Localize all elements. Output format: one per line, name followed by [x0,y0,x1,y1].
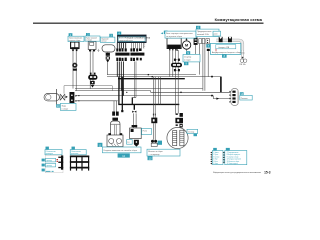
stator bar 2 [180,130,184,146]
legend A bottom marks [46,170,51,173]
arrows right of connector [75,95,77,97]
svg-text:соединений жгута: соединений жгута [119,39,133,42]
svg-text:проводов: проводов [46,153,53,155]
legend R2 tab [226,148,230,151]
battery connector stadium [231,88,239,105]
starter relay lead pair [169,50,171,76]
starter relay stubs [169,49,170,51]
arrow on battery feed [216,98,219,100]
tail lamp symbol [241,50,243,59]
pickup pair wires [152,77,154,118]
svg-text:13: 13 [127,142,129,144]
fuse lead [195,45,197,55]
magneto pair below connector [175,128,177,132]
callout box 5 starter relay [165,31,196,38]
svg-text:батарея 12В: батарея 12В [218,47,230,49]
tab below box 9 [184,62,188,65]
junction dots [78,39,213,102]
svg-text:M: M [185,43,188,47]
wire bus L3 y88.6 [75,88,203,90]
wire bus L8 y100.8 [76,100,118,102]
svg-text:7 Предохранитель: 7 Предохранитель [227,152,239,154]
bullet connector 2 [228,37,232,42]
wire to battery connector y98.6 [213,98,231,100]
svg-text:4 Жгут: 4 Жгут [213,159,218,161]
callout box 6 fuse [196,29,219,36]
svg-text:в сборе: в сборе [62,108,69,110]
thick drop x122.3 [121,77,123,110]
horn arrow down [106,60,109,63]
pickup top block [151,118,157,124]
legend B black table [71,156,89,171]
callout tab 6 [196,26,200,29]
horn body [102,45,115,52]
svg-text:провод: провод [46,165,51,167]
pickup coil terminal [151,140,154,143]
wire drop x213.3 [212,96,214,99]
svg-text:Коммутационная схема: Коммутационная схема [215,17,263,22]
ignition switch wires [72,51,74,89]
svg-text:3 Сигнал: 3 Сигнал [213,156,219,158]
main harness label box [118,35,147,43]
svg-text:реле: реле [214,34,218,36]
svg-text:со жгутом в сборе: со жгутом в сборе [166,36,182,38]
connector pin row 1 [116,48,141,51]
callout box 3 horn [100,37,115,42]
spark plug box [107,135,123,147]
wire thin loop top y85.7 [64,85,112,87]
coil stub to label [114,146,116,149]
ignition coil body [111,121,121,135]
dashed drop x144.8 [144,43,146,49]
arrow to connector [66,96,68,98]
callout tab 2 [86,33,90,36]
svg-text:Стартер: Стартер [184,57,191,59]
magneto pair wires [175,50,177,114]
horn lead [107,51,109,54]
svg-text:Обозначение: Обозначение [46,151,56,153]
wire bus L4 y90.6 [75,90,151,92]
tab below box 13 [194,134,198,137]
legend A title box [45,150,62,155]
connector bar row [115,53,129,56]
headlight bulb X [60,94,64,100]
callout box 14 [240,95,252,100]
svg-text:провод: провод [46,160,51,162]
callout tab 11 [98,143,103,147]
handlebar switch body [88,42,96,50]
callout box 1 ignition switch [68,36,84,41]
extra wire x199.7 [199,44,201,75]
callout tab 1 [69,33,73,36]
short pair x158 [157,77,159,105]
regulator pair wires [133,113,135,128]
callout tab 7 [206,44,210,47]
pickup tab [158,141,162,145]
svg-text:— генератор: — генератор [148,154,159,156]
svg-text:Катушка зажигания со свечой в: Катушка зажигания со свечой в сборе [104,149,137,152]
wire bus L1 y74.6 [107,74,196,76]
wire bus L1b y76.6 [107,76,221,78]
small cyan box left low [127,140,133,145]
svg-text:плавкий 15 А: плавкий 15 А [197,33,209,36]
svg-text:9 Стартер в сборе: 9 Стартер в сборе [227,156,239,158]
block below pair [90,81,94,84]
spare fuse pins [199,39,202,44]
regulator arrows [132,111,134,113]
tab below box 12 [148,156,153,160]
legend B tab [72,147,75,150]
arrow below pair [91,85,94,88]
legend A tab [46,147,49,150]
horn connector blocks [106,53,110,56]
capped stub x208 [207,49,210,51]
svg-text:Разъем: Разъем [241,98,248,100]
rectifier box [130,128,142,139]
starter motor M [182,41,190,49]
regulator connector mark [132,125,138,127]
wire bus L2 thick y78.7 [118,78,185,80]
midwire connector pair [88,75,97,80]
callout box 2 switch [85,36,100,41]
callout box 11 ignition coil [102,147,141,153]
battery inner box [216,45,236,49]
callout tab 4 harness [117,32,121,35]
bundle continues down [117,61,123,95]
svg-text:Предохранитель: Предохранитель [197,31,212,33]
red link [215,49,217,52]
svg-text:10 Катушка зажигания: 10 Катушка зажигания [227,159,242,161]
magneto caption [171,150,175,152]
legend R1 tab [213,148,217,151]
callout tab 3 [109,34,113,37]
callout tab 10 headlight [56,104,60,107]
svg-text:12В 3Вт: 12В 3Вт [239,64,246,66]
legend R1 arrows [210,152,212,165]
harness bundle thin verticals [131,43,143,49]
battery cable gray [216,40,242,50]
legend R2 box [225,151,247,165]
starter relay box [167,38,181,49]
thick ground bus y104.45 [118,103,179,105]
thick battery lead down x220.9 [220,77,222,93]
magneto circle [167,127,188,148]
small cyan box top right [213,31,221,36]
plug hatch [111,144,113,146]
headlight mast [56,89,58,105]
svg-text:в сборе: в сборе [184,60,191,62]
svg-text:Магнето в сборе: Магнето в сборе [148,151,163,153]
svg-text:Информация только для предвари: Информация только для предварительного о… [213,171,262,174]
svg-text:Обозначение: Обозначение [71,151,81,153]
legend A cyan cell 2 [46,163,56,167]
rectifier glyph [134,140,139,147]
thick drop from bundle x118.9 [118,77,120,105]
callout tab 5 [164,31,168,34]
inline connector pair goggles [171,63,182,67]
main fuse [194,38,198,45]
ignition coil connector [112,112,115,116]
legend R2 arrows [223,152,225,163]
tab below box 11 [118,153,130,157]
svg-text:Аккумуляторная батарея в сборе: Аккумуляторная батарея в сборе [212,51,241,54]
cyan box right of rectifier [142,128,152,134]
tiny marks right of switch2 [97,49,99,52]
wire loop left v x64 [63,86,65,94]
thick elbow x132.3 [131,97,133,104]
battery label box outer [210,43,240,54]
ignition coil feed wires [113,101,115,112]
harness bundle verticals [117,43,125,49]
tab below battery box [222,54,227,57]
legend B title box [70,150,86,155]
svg-text:8 Батарея аккумулят.: 8 Батарея аккумулят. [227,154,241,156]
callout box 9 starter motor [183,55,200,62]
wire bus L5 y95.6 [76,95,214,97]
legend A red mark [57,159,59,160]
callout box 13 magneto [187,129,198,133]
wire step x150.6 [150,91,152,93]
switch bottom stubs [72,49,74,51]
svg-text:разъемов: разъемов [71,153,78,155]
headlight body [44,94,59,101]
stator bar 1 [173,131,177,146]
svg-text:Реле стартера электрического: Реле стартера электрического [166,33,193,35]
svg-text:2 Пульт: 2 Пульт [213,154,218,156]
svg-text:в сборе: в сборе [86,40,92,42]
legend A cyan cell 1 [46,158,56,162]
callout box 12 magneto [147,149,180,156]
regulator drop thick [133,104,135,109]
callout tab 14 battery connector [240,92,244,95]
svg-text:сигнал: сигнал [101,41,106,43]
wire bus L4b y92.3 [151,91,231,93]
connector pin row 2 [116,58,142,61]
arrow down [135,148,138,151]
charge pair wires [133,61,135,97]
svg-text:1 Замок: 1 Замок [213,152,219,154]
ignition switch body [71,42,79,48]
handlebar switch wires [89,51,91,88]
headlight connector [70,92,75,103]
svg-text:Реле: Реле [143,131,147,133]
right pair wires [202,44,204,91]
callout box 10 headlight [60,103,76,110]
wire loop right v x112.3 [111,86,113,91]
svg-text:и руля в сборе: и руля в сборе [69,40,81,42]
svg-text:12 Лампа задняя: 12 Лампа задняя [227,163,238,165]
legend A black column [61,156,63,170]
svg-text:11 Магнето в сборе: 11 Магнето в сборе [227,161,240,163]
magneto connector cluster [176,113,178,115]
svg-text:5 Реле: 5 Реле [213,161,218,163]
svg-text:15-3: 15-3 [264,171,271,175]
legend A row tabs [42,159,45,162]
header rule [33,23,264,24]
callout tab 9 [186,51,190,54]
svg-text:Статор: Статор [188,131,194,133]
legend A table frame [45,155,63,173]
round connector on switch lead [72,63,77,68]
legend R1 box [212,151,223,165]
bullet connector 1 [219,37,223,42]
